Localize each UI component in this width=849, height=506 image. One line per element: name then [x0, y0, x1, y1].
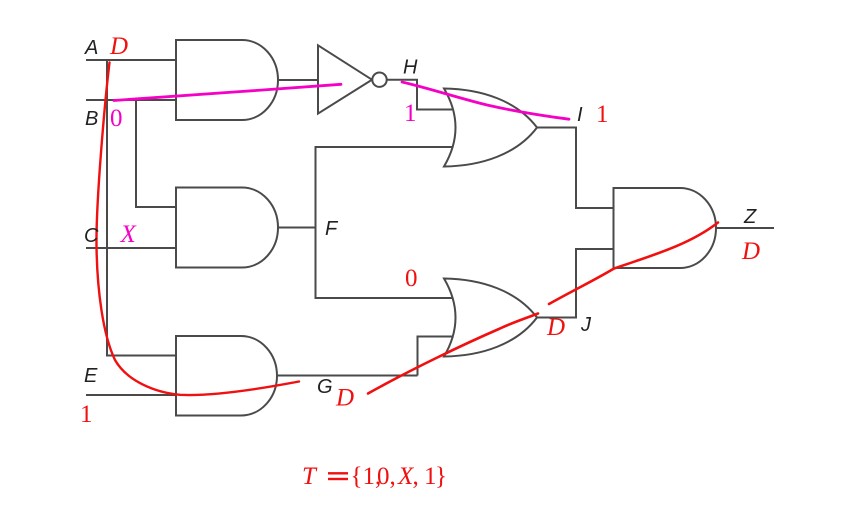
- svg-text:1: 1: [404, 100, 417, 127]
- svg-text:H: H: [403, 57, 418, 79]
- AND gate (top, inputs A B): [176, 40, 278, 120]
- NOT gate bubble: [372, 73, 386, 87]
- magenta fault-free path from B through AND1: [114, 84, 341, 100]
- svg-text:1: 1: [596, 101, 609, 128]
- OR gate (top, inputs H F, output I): [444, 89, 537, 167]
- wire F branch down to OR2: [316, 228, 453, 299]
- svg-text:J: J: [580, 314, 592, 336]
- wire F branch up to OR1: [316, 147, 453, 228]
- NOT gate triangle: [318, 45, 372, 113]
- svg-text:B: B: [85, 108, 98, 130]
- wire H from NOT bubble to OR1: [387, 80, 452, 110]
- wire input B: [86, 99, 176, 101]
- wire G from AND3 output: [277, 375, 418, 377]
- wire A branch down to bottom AND: [107, 60, 176, 356]
- svg-text:X: X: [120, 221, 138, 248]
- svg-text:Z: Z: [743, 206, 757, 228]
- svg-text:C: C: [84, 225, 99, 247]
- wire I from OR1 to final AND: [537, 128, 614, 209]
- svg-text:D: D: [335, 385, 354, 412]
- wire input C: [86, 247, 176, 249]
- svg-text:E: E: [84, 365, 98, 387]
- AND gate (final, inputs I J, output Z): [614, 188, 717, 268]
- wire input A: [86, 59, 176, 61]
- svg-text:D: D: [109, 33, 128, 60]
- wire AND1 output to NOT: [278, 79, 318, 81]
- svg-text:0: 0: [405, 265, 418, 292]
- wire F from AND2 output: [278, 227, 316, 229]
- red fault path from OR2 through final AND to Z: [549, 223, 718, 305]
- svg-text:1: 1: [80, 401, 93, 428]
- svg-text:0: 0: [110, 105, 123, 132]
- wire G up to OR2: [418, 337, 453, 376]
- red fault path from G through OR2: [368, 314, 538, 394]
- wire J from OR2 to final AND: [537, 249, 614, 318]
- svg-text:F: F: [325, 218, 339, 240]
- svg-text:D: D: [546, 314, 565, 341]
- equals sign of test vector: [328, 472, 348, 474]
- AND gate (middle, inputs B C, output F): [176, 188, 278, 268]
- wire input E: [86, 394, 176, 396]
- wire Z output: [716, 227, 774, 229]
- AND gate (bottom, inputs A E, output G): [176, 336, 277, 416]
- svg-text:A: A: [84, 37, 98, 59]
- svg-text:I: I: [577, 104, 583, 126]
- svg-text:T{1,0,X,1}: T{1,0,X,1}: [302, 463, 447, 490]
- wire B branch down to middle AND: [136, 100, 176, 207]
- svg-text:D: D: [741, 238, 760, 265]
- red fault path from A down to E area: [96, 63, 299, 396]
- OR gate (bottom, inputs F G, output J): [444, 279, 537, 357]
- svg-text:G: G: [317, 376, 333, 398]
- magenta path from H through OR1 to I: [402, 82, 569, 119]
